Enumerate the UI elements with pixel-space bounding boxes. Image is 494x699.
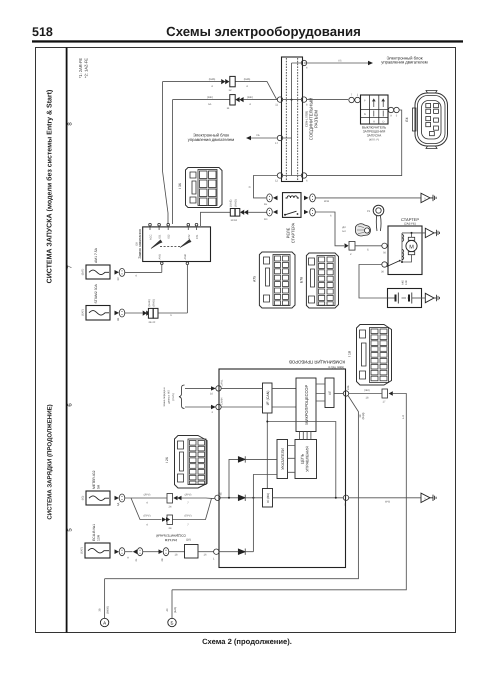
header rule [32,40,463,42]
cluster pin CANL [216,379,224,391]
ground triangle battery [422,293,440,302]
svg-text:Схемы электрооборудования: Схемы электрооборудования [166,24,361,39]
svg-text:3C: 3C [117,277,120,280]
svg-text:CANL: CANL [221,379,224,386]
wire IF to output pin [334,393,343,395]
svg-text:(CAN): (CAN) [172,393,175,400]
wires MPU to control [300,432,311,440]
svg-text:IC (ВК): IC (ВК) [266,493,270,503]
row2 labels [207,96,253,110]
joint connector bar CON-L [282,57,303,182]
svg-text:ECU-B №1: ECU-B №1 [92,524,96,541]
svg-text:ST2: ST2 [188,234,191,239]
svg-text:(ПРУ): (ПРУ) [144,515,151,518]
wire IG feed row2 [173,100,278,224]
cluster pin CANH [216,398,224,410]
left divider thick line [66,48,68,633]
relay output ovals [304,194,315,216]
park/neutral position switch [361,95,389,124]
joint connector 2L [169,545,214,559]
top wire to ground [402,233,425,237]
wire cluster to ground right [349,498,421,504]
bar terminals [275,60,308,182]
instrument cluster box [219,369,346,568]
connector I26 [175,436,208,489]
svg-text:Б3: Б3 [342,230,346,233]
inhibitor switch input terminals [349,94,360,103]
svg-text:ST1: ST1 [196,234,199,239]
wire bar to starter relay [249,176,278,198]
joint connector label [156,534,191,543]
control circuit box [295,440,317,479]
ECU-B oval 1 [115,548,130,560]
svg-text:W-B: W-B [385,501,390,504]
connector pair row2 [230,95,244,105]
wire to ECM middle left [246,134,278,140]
svg-text:518: 518 [32,25,53,39]
wire CANL [185,386,216,395]
cluster ground pin [343,495,348,506]
METER connector oval [115,494,125,506]
RHD connector [162,515,173,530]
oval inner dots [122,196,314,554]
svg-text:Схема 2 (продолжение).: Схема 2 (продолжение). [202,637,292,646]
svg-text:A: A [103,621,106,626]
wire starter pin30 to battery [359,265,388,299]
cluster output pin [343,385,350,396]
ignition switch [143,223,211,264]
connector I18 [357,325,392,386]
svg-text:данных MS: данных MS [168,390,171,404]
svg-text:СИСТЕМА ЗАПУСКА (модели без си: СИСТЕМА ЗАПУСКА (модели без системы Entr… [46,90,54,284]
relay input ovals [264,194,278,221]
svg-text:N: N [364,113,366,116]
wires MPU to IF [316,384,325,401]
svg-text:ЗАПУСКА: ЗАПУСКА [367,134,382,138]
svg-text:D: D [382,121,384,124]
svg-text:(B4Д): (B4Д) [362,413,365,420]
ground triangle relay [421,193,436,202]
svg-text:Б1: Б1 [208,103,212,106]
battery clamp part E5 [342,224,370,236]
starter pins [381,243,387,273]
fuse METER IG2 [82,470,111,505]
svg-text:19 18: 19 18 [231,219,238,222]
wires CAN to IF [221,388,262,407]
svg-text:W-B: W-B [324,200,329,203]
svg-text:Шина передачи: Шина передачи [163,387,166,406]
LHD connector [167,494,182,509]
wire METER split LHD [125,494,215,505]
microprocessor box [296,378,316,432]
diode upper [220,456,277,499]
svg-text:Б78: Б78 [300,277,304,283]
wires indicators to control [288,446,296,473]
battery [388,280,422,308]
contacts [151,240,162,249]
engine note *1 *2 [78,58,89,79]
svg-text:(БАТ): (БАТ) [82,269,85,276]
pull-in coils [401,233,403,262]
ignition switch connector I36 [186,168,223,208]
starter relay label [286,222,296,243]
svg-text:(D4г): (D4г) [207,96,213,99]
svg-text:ЦЕПЬ: ЦЕПЬ [301,453,305,464]
inhibitor switch output terminals [388,107,399,117]
svg-text:(БАТ): (БАТ) [82,309,85,316]
svg-text:4Б: 4Б [220,492,223,495]
svg-text:Д3: Д3 [342,226,346,229]
switch lever [387,261,400,267]
starter relay [283,193,302,218]
svg-text:IG1: IG1 [159,234,162,239]
svg-text:ST/AM2 30A: ST/AM2 30A [94,284,98,304]
svg-text:P2: P2 [367,210,371,213]
cluster pin B+ [215,492,223,500]
svg-text:УКАЗАТЕЛИ: УКАЗАТЕЛИ [281,448,285,470]
CAN brace [179,385,185,408]
wire inhibitor to bar lower right [307,110,402,176]
svg-text:AM2: AM2 [184,254,187,260]
wires IF to MPU [272,388,296,407]
wire through IC to output [273,497,344,499]
svg-text:R: R [373,121,375,124]
svg-text:I 18: I 18 [348,351,352,357]
IF right box [325,378,334,408]
wire to ECM top right [304,60,373,66]
fuse AM1 [82,247,111,279]
instrument cluster label [289,360,345,370]
CAN bus label [163,387,175,406]
svg-text:I/F: I/F [328,391,332,395]
row1 labels [209,78,251,92]
svg-text:1E: 1E [264,203,267,206]
svg-text:AM1 7.5A: AM1 7.5A [94,247,98,263]
svg-text:CANH: CANH [221,398,224,405]
connector E4 [413,91,448,149]
wire relay to starter [316,212,345,246]
svg-text:AM1: AM1 [158,254,161,260]
wire METER split RHD [131,498,212,527]
wire CANH [185,405,216,414]
svg-text:I/F (CAN): I/F (CAN) [266,391,270,406]
svg-text:КОМБИНАЦИЯ ПРИБОРОВ: КОМБИНАЦИЯ ПРИБОРОВ [289,360,345,365]
svg-text:СОЕДИНИТЕЛЬНЫЙ: СОЕДИНИТЕЛЬНЫЙ [156,534,186,538]
motor [406,240,417,251]
svg-text:I 36: I 36 [178,183,182,189]
svg-text:A75: A75 [253,276,257,282]
svg-text:(ЛРУ): (ЛРУ) [185,494,192,497]
svg-text:E4: E4 [405,117,409,121]
svg-text:РАЗЪЕМ: РАЗЪЕМ [164,538,177,542]
svg-text:24Б: 24Б [347,385,350,390]
connector pair row1 [221,76,235,86]
svg-text:(2AZ-FE): (2AZ-FE) [404,222,416,226]
wire UAE connector to relay [248,211,266,213]
svg-text:(UAE): (UAE) [230,200,233,207]
connector A75 [259,252,295,308]
svg-text:(IG): (IG) [82,496,85,501]
starter [387,226,426,275]
cluster pin IGB [213,549,219,561]
svg-text:P: P [364,100,366,103]
svg-text:(RHD): (RHD) [234,199,237,206]
svg-text:Б: Б [171,621,174,626]
svg-text:I 26: I 26 [165,457,169,463]
outer frame [36,48,456,633]
diode bottom row [219,498,253,555]
bottom link [402,255,412,262]
svg-text:(B45б): (B45б) [107,606,110,614]
ECU-B oval 3 [143,548,169,562]
wire fuse AM1 to switch [125,265,162,278]
svg-text:(D4б): (D4б) [244,78,251,81]
svg-text:IG2: IG2 [168,234,171,239]
connector pair on ST/AM2 wire [143,299,158,324]
ignition switch label [136,229,142,258]
connector on IG wire [382,389,393,404]
svg-text:Б: Б [367,249,369,252]
svg-text:управления двигателем: управления двигателем [188,137,235,142]
wire bar to inhibitor switch [307,99,349,101]
svg-text:(2Л): (2Л) [186,539,191,542]
wire connector to starter pin [355,246,382,252]
connector on starter wire [345,242,356,257]
svg-text:ACC: ACC [150,234,153,240]
svg-text:*2: 1AZ-FE: *2: 1AZ-FE [84,58,89,78]
wire to right drop [172,394,406,590]
svg-text:МИКРОПРОЦЕССОР: МИКРОПРОЦЕССОР [304,385,309,425]
svg-text:(КПП: Р): (КПП: Р) [369,139,379,142]
ST/AM2 connector oval [115,309,125,321]
svg-text:(ПРУ): (ПРУ) [185,515,192,518]
IF CAN box [263,383,273,413]
svg-text:(I4б): (I4б) [364,389,370,392]
ECM label middle left [188,133,235,142]
fuse ECU-B [81,524,111,558]
svg-text:METER-IG2: METER-IG2 [92,470,96,489]
svg-text:I17(A), I18(B): I17(A), I18(B) [328,366,344,369]
svg-text:3B: 3B [117,318,120,321]
svg-text:*1: 2AR-FE: *1: 2AR-FE [78,58,83,79]
svg-text:2E 2F: 2E 2F [149,321,156,324]
svg-text:РАЗЪЕМ: РАЗЪЕМ [313,110,318,128]
svg-text:Замок зажигания: Замок зажигания [138,229,142,258]
svg-text:6Д: 6Д [117,503,120,506]
svg-text:(D4г): (D4г) [247,96,253,99]
inhibitor switch label [362,126,386,142]
svg-text:(Б45): (Б45) [174,607,177,613]
svg-text:(UAE): (UAE) [148,299,151,306]
connector B78 [306,253,338,308]
ground triangle cluster [421,493,436,502]
wire ST pin from UAE connector [201,212,231,226]
wire relay to ground [316,198,421,203]
svg-text:(D4б): (D4б) [209,78,216,81]
starter label [401,217,419,226]
svg-text:M: M [409,244,414,250]
svg-text:5A: 5A [97,484,101,489]
AM1 connector oval [115,268,125,280]
label right drop [402,415,405,419]
svg-text:СТАРТЕРА: СТАРТЕРА [290,222,295,243]
svg-text:A: A [127,557,129,560]
svg-text:10A: 10A [97,534,101,541]
indicators box [277,440,288,479]
ground point IG [166,590,177,627]
svg-text:I/Б: I/Б [256,134,259,137]
svg-text:СИСТЕМА ЗАРЯДКИ (ПРОДОЛЖЕНИЕ): СИСТЕМА ЗАРЯДКИ (ПРОДОЛЖЕНИЕ) [47,404,54,519]
svg-text:12В: 12В [405,280,408,285]
diode lower [238,475,277,502]
svg-text:2Е: 2Е [161,558,164,561]
ECM label top right [381,55,428,64]
svg-text:(ЛРУ): (ЛРУ) [144,494,151,497]
svg-text:УПРАВЛЕНИЯ: УПРАВЛЕНИЯ [306,446,310,472]
ground point GA [99,579,110,627]
wire with UAE pair to AM2 [125,265,187,318]
IC box [263,489,273,508]
BR ground diagonal [105,396,365,579]
bar label [305,98,319,141]
svg-text:управления двигателем: управления двигателем [381,60,428,65]
svg-text:(RHD): (RHD) [153,299,156,306]
svg-text:(БАТ): (БАТ) [81,547,84,554]
wire IG feed row1 [163,82,277,224]
battery terminal P2 [367,205,384,231]
connector UAE/RHD stack [230,199,249,222]
fuse ST/AM2 [82,284,111,320]
ECU-B oval 2 [125,548,143,562]
ground triangle starter [425,228,439,237]
wire IFCAN down junction [266,413,336,498]
wire cluster output to IG connector [349,389,382,400]
svg-text:L-O: L-O [402,415,405,419]
svg-text:1D: 1D [264,218,267,221]
top pins [149,223,152,226]
